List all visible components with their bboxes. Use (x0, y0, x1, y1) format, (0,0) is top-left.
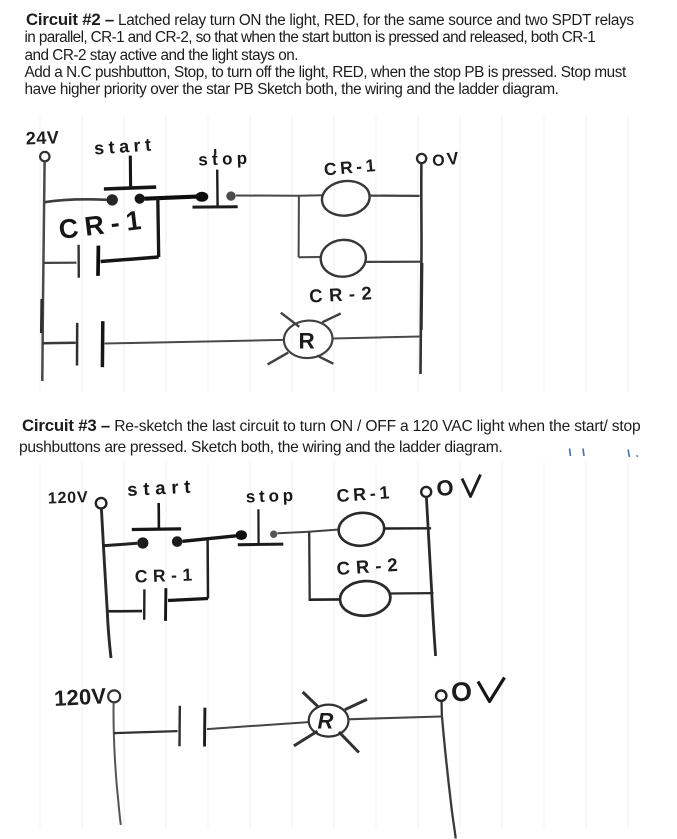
wire rung3 from rail C2 (42, 341, 75, 344)
wire left rail C2 (42, 162, 44, 382)
svg-text:O: O (450, 676, 473, 707)
svg-text:start: start (93, 134, 156, 158)
wire latch bottom C3 (168, 599, 208, 601)
svg-text:O: O (432, 152, 445, 170)
contact CR-1 right bar C3 (164, 588, 167, 621)
wire rung bottom from rail (114, 731, 178, 733)
contact rung3 right bar C2 (101, 321, 105, 367)
svg-text:CR-1: CR-1 (134, 564, 198, 586)
contact CR-1 right bar C2 (96, 246, 100, 276)
wire rung1 C2 (45, 199, 107, 202)
wire right drop bottom (442, 717, 456, 839)
contact CR-1 left bar C3 (143, 589, 146, 619)
wire terminal stub bottom (440, 701, 443, 717)
relay coil CR-2 C2 (319, 238, 367, 278)
wire start to stop C2 (145, 196, 203, 198)
svg-text:stop: stop (198, 149, 252, 170)
contact bottom left bar (178, 706, 181, 747)
wire contact to lamp bottom (207, 722, 308, 729)
svg-text:stop: stop (245, 486, 297, 507)
wire coil CR-2 to rail C3 (391, 592, 434, 595)
wire contact to left rail C2 (44, 262, 77, 264)
pushbutton stop C2 (193, 149, 238, 207)
wire coil CR-2 to right rail C2 (366, 261, 421, 263)
wire latch bottom C2 (101, 257, 159, 262)
pushbutton start C2 (104, 156, 156, 206)
wire start to stop C3 (183, 535, 241, 541)
wire left drop bottom (114, 703, 121, 825)
wire branch to coil CR-2 (299, 256, 321, 258)
wire stop to node A (236, 195, 299, 197)
svg-text:CR-1: CR-1 (57, 204, 149, 245)
svg-text:start: start (127, 475, 197, 500)
svg-text:24V: 24V (25, 127, 59, 148)
wire lamp to right rail C2 (333, 337, 421, 339)
wire right rail C2 (421, 163, 422, 374)
svg-text:CR-2: CR-2 (309, 282, 379, 307)
wire branch node B down C3 (308, 532, 311, 601)
wire coil CR-1 to rail C3 (384, 527, 431, 530)
wire contact to rail C3 (108, 610, 143, 613)
wire latch branch down C3 (206, 539, 209, 599)
terminal 120V bottom (108, 690, 120, 702)
terminal 0V C3 (421, 487, 431, 497)
svg-text:R: R (318, 709, 334, 734)
pushbutton start C3 (132, 503, 183, 549)
blue ink marks (570, 449, 639, 458)
wire node A to coil CR-1 (299, 194, 322, 197)
wire right rail C2 overdraw (420, 263, 424, 330)
pushbutton stop C3 (236, 509, 284, 544)
paper ruled lines (40, 116, 628, 828)
wire node B to coil CR-1 C3 (307, 530, 339, 532)
wire right rail C3 (426, 497, 435, 656)
terminal 0V C2 (417, 154, 426, 163)
relay coil CR-1 C2 (320, 178, 372, 218)
contact rung3 left bar C2 (76, 323, 79, 366)
svg-text:V: V (446, 148, 460, 169)
terminal 0V bottom (436, 691, 446, 701)
wire rung1 C3 (103, 543, 138, 545)
contact CR-1 left bar C2 (77, 245, 80, 278)
wire lamp to junction bottom (347, 717, 441, 720)
svg-text:120V: 120V (53, 683, 107, 711)
svg-text:R: R (299, 329, 315, 354)
svg-text:120V: 120V (48, 489, 89, 507)
svg-text:CR-2: CR-2 (336, 553, 404, 579)
svg-text:CR-1: CR-1 (323, 155, 379, 180)
wire rung3 to lamp C2 (105, 340, 284, 344)
terminal 120V C3 (96, 498, 107, 509)
wire branch to coil CR-2 C3 (310, 598, 341, 601)
wire branch node A down (298, 196, 300, 257)
contact bottom right bar (203, 708, 206, 747)
lamp R bottom (294, 692, 367, 753)
wire latch branch down C2 (156, 198, 160, 257)
lamp R C2 (268, 313, 341, 365)
wire left rail C3 (101, 509, 111, 658)
wire left rail C2 overdraw (40, 299, 43, 333)
wire coil CR-1 to right rail C2 (370, 195, 420, 197)
wire stop to node B C3 (278, 532, 307, 533)
relay coil CR-2 C3 (339, 579, 392, 617)
terminal 24V (40, 152, 49, 161)
svg-text:O: O (436, 475, 455, 501)
svg-text:CR-1: CR-1 (336, 482, 394, 506)
relay coil CR-1 C3 (337, 511, 385, 548)
